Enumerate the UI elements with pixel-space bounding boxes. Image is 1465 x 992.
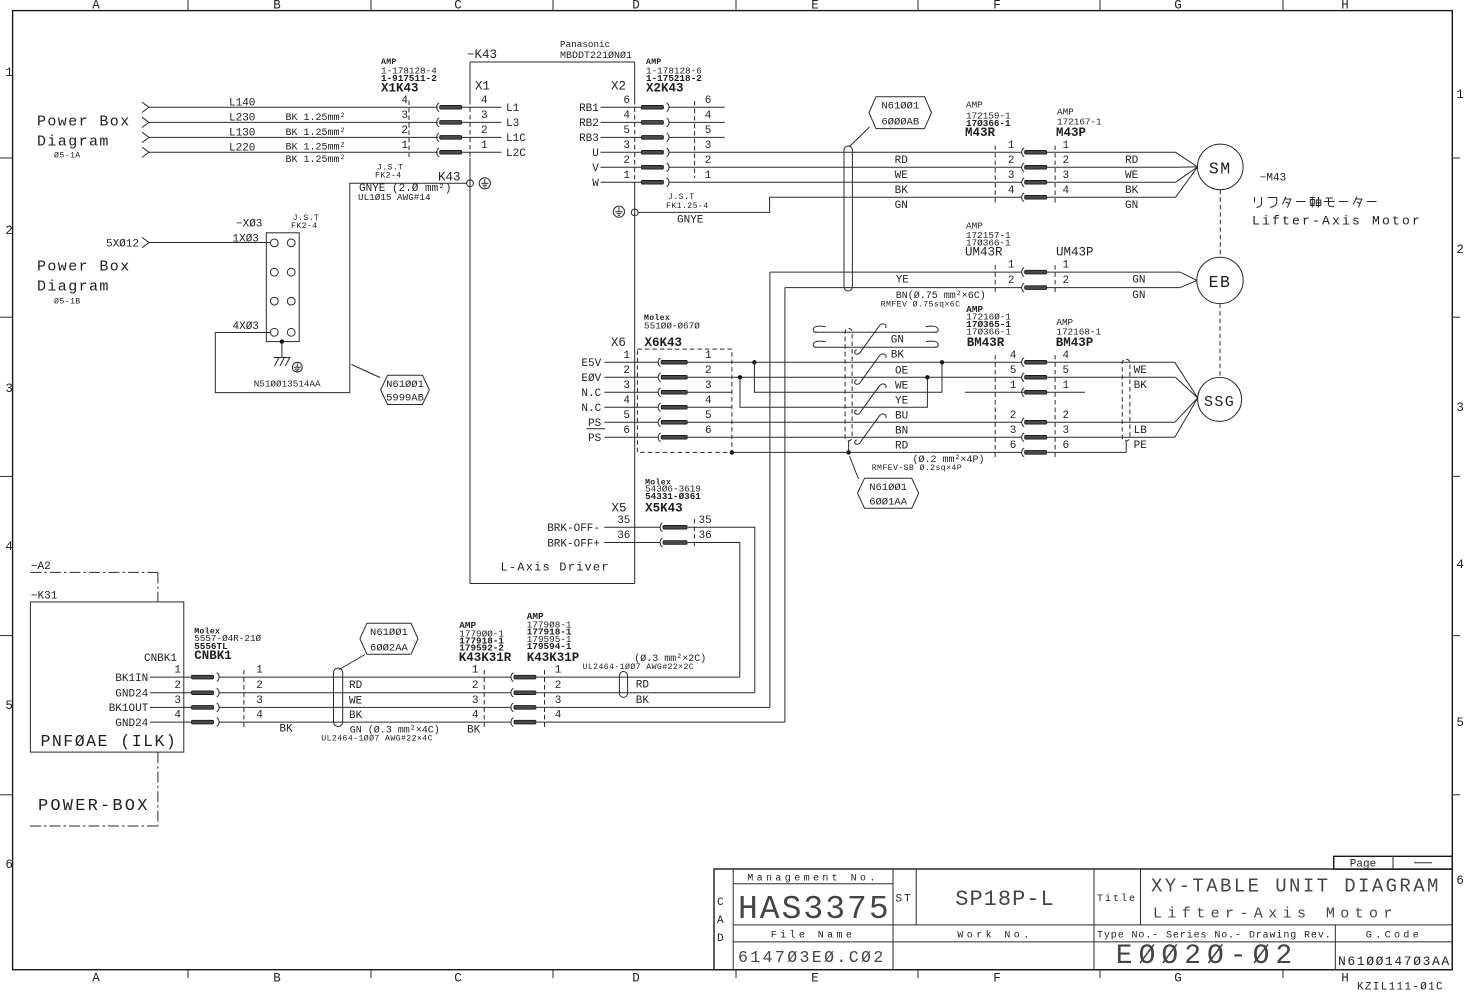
svg-text:A: A — [92, 0, 100, 13]
svg-text:5: 5 — [1063, 365, 1070, 377]
svg-text:2: 2 — [1063, 155, 1070, 167]
wire L140 — [142, 97, 438, 112]
svg-text:E5V: E5V — [581, 358, 601, 370]
svg-text:BK1OUT: BK1OUT — [109, 703, 149, 715]
twist symbol pair YE/BU — [855, 384, 886, 414]
node K43 with PE symbol — [375, 164, 490, 189]
svg-text:BK: BK — [467, 724, 481, 736]
svg-text:X6K43: X6K43 — [645, 336, 683, 350]
svg-text:3: 3 — [1008, 170, 1015, 182]
connector UM43R/UM43P — [965, 221, 1094, 293]
wire OE (X6 pin1 - BM43R pin4) — [687, 360, 1021, 392]
terminal block -X03 — [233, 214, 320, 341]
svg-text:6147Ø3EØ.CØ2: 6147Ø3EØ.CØ2 — [738, 948, 886, 967]
svg-text:2: 2 — [1063, 410, 1070, 422]
svg-text:1: 1 — [1008, 260, 1015, 272]
connector X6K43 — [611, 313, 732, 452]
svg-text:2: 2 — [555, 680, 562, 692]
svg-text:2: 2 — [705, 365, 712, 377]
svg-text:2: 2 — [481, 125, 488, 137]
balloon N61001 5999AB — [352, 365, 430, 405]
svg-text:Power Box: Power Box — [37, 114, 131, 131]
svg-text:Diagram: Diagram — [37, 134, 110, 151]
svg-text:A: A — [92, 972, 100, 986]
twist symbol pair GN/BK — [855, 324, 886, 354]
wire YE stub (X6 pin3) — [687, 392, 1085, 407]
svg-text:5: 5 — [5, 699, 13, 713]
svg-text:N.C: N.C — [581, 403, 601, 415]
wire BK1OUT (CNBK1 pin 3) — [109, 703, 511, 715]
svg-text:3: 3 — [481, 110, 488, 122]
svg-text:BK: BK — [895, 185, 909, 197]
svg-text:1: 1 — [472, 665, 479, 677]
svg-text:WE: WE — [1134, 365, 1148, 377]
svg-text:BU: BU — [895, 410, 908, 422]
svg-text:D: D — [717, 933, 724, 945]
svg-text:BK 1.25mm²: BK 1.25mm² — [286, 143, 346, 154]
svg-text:4: 4 — [401, 95, 408, 107]
svg-text:4: 4 — [1010, 350, 1017, 362]
wire GND24 (CNBK1 pin 2) — [115, 689, 511, 701]
svg-text:BK: BK — [349, 710, 363, 722]
svg-text:WE: WE — [1125, 170, 1139, 182]
svg-text:N61ØØ147Ø3AA: N61ØØ147Ø3AA — [1338, 954, 1451, 969]
wire WE (X6 pin2 - BM43R pin5) — [687, 375, 1021, 407]
svg-text:551ØØ-Ø67Ø: 551ØØ-Ø67Ø — [644, 321, 700, 332]
cable 0.2mm2x4P shield — [845, 329, 984, 473]
connector CNBK1 — [144, 627, 263, 727]
svg-text:G: G — [1174, 0, 1182, 13]
svg-text:6: 6 — [705, 425, 712, 437]
svg-text:J.S.T: J.S.T — [668, 193, 695, 202]
svg-text:3: 3 — [623, 380, 630, 392]
spare pair GN/BK — [813, 326, 938, 362]
svg-text:GN: GN — [891, 335, 904, 347]
svg-text:4: 4 — [1456, 558, 1464, 572]
svg-text:4XØ3: 4XØ3 — [233, 321, 259, 333]
svg-text:X5: X5 — [612, 502, 627, 516]
svg-text:FK2-4: FK2-4 — [291, 222, 318, 231]
svg-text:BK 1.25mm²: BK 1.25mm² — [286, 155, 346, 166]
twist symbol pair OE/WE — [855, 354, 886, 384]
svg-text:4: 4 — [705, 110, 712, 122]
wire label RD — [349, 680, 363, 692]
wire PE to SSG — [1047, 398, 1198, 452]
svg-text:G.Code: G.Code — [1366, 930, 1422, 942]
wire LB to SSG — [1047, 398, 1198, 437]
svg-text:SP18P-L: SP18P-L — [955, 887, 1054, 912]
wire GNYE 2.0mm2 — [215, 183, 466, 392]
svg-text:LB: LB — [1134, 425, 1148, 437]
svg-text:1: 1 — [705, 350, 712, 362]
svg-text:36: 36 — [617, 530, 630, 542]
svg-text:3: 3 — [256, 695, 263, 707]
svg-text:2: 2 — [1008, 275, 1015, 287]
svg-text:GN: GN — [895, 200, 908, 212]
svg-text:6ØØ1AA: 6ØØ1AA — [869, 496, 908, 508]
svg-text:2: 2 — [1008, 155, 1015, 167]
svg-text:3: 3 — [1063, 425, 1070, 437]
svg-text:5999AB: 5999AB — [386, 393, 424, 405]
svg-text:PS: PS — [588, 433, 602, 445]
svg-text:2: 2 — [401, 125, 408, 137]
svg-text:2: 2 — [623, 365, 630, 377]
svg-text:BM43R: BM43R — [967, 336, 1005, 350]
svg-text:C: C — [717, 897, 724, 909]
svg-text:−M43: −M43 — [1260, 172, 1286, 184]
svg-text:D: D — [632, 0, 640, 13]
svg-text:BK: BK — [891, 350, 905, 362]
wire GND24 (CNBK1 pin 4) — [115, 718, 511, 730]
svg-text:1: 1 — [705, 170, 712, 182]
svg-text:RD: RD — [1125, 155, 1139, 167]
svg-text:6: 6 — [705, 95, 712, 107]
node PE X2 / wire GNYE-GN — [613, 193, 1021, 226]
wire L130 — [142, 127, 438, 142]
title block CAD — [717, 897, 724, 945]
X6 signal E5V pin 1 — [581, 358, 658, 370]
svg-text:OE: OE — [895, 365, 909, 377]
wire label BK 1.25mm2 (4th) — [286, 155, 346, 166]
wire V (X2 pin 2) — [592, 163, 1021, 175]
svg-text:SM: SM — [1209, 159, 1232, 178]
svg-text:Type No.- Series No.- Drawing: Type No.- Series No.- Drawing Rev. — [1097, 930, 1332, 942]
svg-text:GND24: GND24 — [115, 718, 148, 730]
svg-text:WE: WE — [895, 380, 909, 392]
svg-text:4: 4 — [481, 95, 488, 107]
svg-text:BM43P: BM43P — [1056, 336, 1094, 350]
svg-text:L230: L230 — [229, 112, 255, 124]
svg-text:6: 6 — [623, 425, 630, 437]
svg-text:UM43P: UM43P — [1056, 246, 1094, 260]
svg-text:ST: ST — [896, 894, 913, 906]
svg-text:5: 5 — [705, 125, 712, 137]
svg-text:1: 1 — [623, 350, 630, 362]
svg-text:6: 6 — [623, 95, 630, 107]
wire RD (X6 pin6 - BM43R pin3) — [687, 437, 1021, 452]
svg-text:2: 2 — [705, 155, 712, 167]
wire BN (EB pin2, riser to K43K31 pin4) — [785, 280, 1197, 722]
svg-text:4: 4 — [555, 710, 562, 722]
svg-text:Page: Page — [1350, 858, 1376, 870]
svg-text:H: H — [1341, 972, 1349, 986]
brake EB — [1197, 257, 1243, 377]
svg-text:UL2464-1ØØ7 AWG#22×4C: UL2464-1ØØ7 AWG#22×4C — [321, 734, 433, 744]
svg-text:Power Box: Power Box — [37, 259, 131, 276]
svg-text:M43P: M43P — [1056, 126, 1086, 140]
wire BN (X6 pin5 - BM43R pin2) — [687, 422, 1021, 437]
svg-text:D: D — [632, 972, 640, 986]
svg-text:Diagram: Diagram — [37, 279, 110, 296]
svg-text:L1: L1 — [506, 103, 520, 115]
svg-text:BK: BK — [1134, 380, 1148, 392]
svg-text:1: 1 — [1063, 380, 1070, 392]
svg-text:2: 2 — [1063, 275, 1070, 287]
svg-text:4: 4 — [1063, 185, 1070, 197]
svg-text:RD: RD — [895, 440, 909, 452]
svg-text:4: 4 — [256, 710, 263, 722]
wire WE (M43 pin 2) — [895, 167, 1198, 182]
svg-text:−K43: −K43 — [467, 48, 497, 62]
svg-text:35: 35 — [617, 515, 630, 527]
svg-text:C: C — [454, 0, 462, 13]
cable 0.3mm2x2C note — [583, 653, 707, 707]
wire BRK-OFF+ (X5 pin36) — [547, 538, 740, 677]
svg-text:BK: BK — [636, 695, 650, 707]
svg-text:V: V — [592, 163, 599, 175]
wire BK (K43K31 pin2) — [537, 692, 755, 694]
svg-text:1: 1 — [1010, 380, 1017, 392]
svg-text:6: 6 — [1456, 874, 1464, 888]
svg-text:4: 4 — [5, 540, 13, 554]
svg-text:2: 2 — [1456, 243, 1464, 257]
wire 4 (K43K31 pin4) — [537, 721, 785, 723]
svg-text:6ØØ2AA: 6ØØ2AA — [370, 642, 409, 654]
wire 5X012 — [106, 237, 270, 250]
wire WE to SSG — [1047, 362, 1198, 398]
wire RB3 (X2 pin 5) — [579, 133, 725, 145]
svg-text:1XØ3: 1XØ3 — [233, 234, 259, 246]
wire shield RD (housing - BM43R pin6) — [730, 450, 1022, 454]
svg-text:RB1: RB1 — [579, 103, 599, 115]
connector X2K43 — [623, 58, 711, 187]
POWER-BOX boundary — [30, 752, 158, 826]
document code KZIL111-01C — [1357, 982, 1444, 992]
svg-text:RMFEV Ø.75sq×6C: RMFEV Ø.75sq×6C — [881, 299, 961, 309]
svg-text:CNBK1: CNBK1 — [194, 649, 232, 663]
X6 signal N.C pin 3 — [581, 388, 658, 400]
svg-text:N.C: N.C — [581, 388, 601, 400]
svg-text:1: 1 — [481, 140, 488, 152]
svg-text:EB: EB — [1209, 273, 1232, 292]
wire BRK-OFF- (X5 pin35) — [547, 523, 755, 693]
wire RB2 (X2 pin 4) — [579, 118, 725, 130]
svg-text:G: G — [1174, 972, 1182, 986]
svg-text:4: 4 — [623, 395, 630, 407]
svg-text:1: 1 — [1008, 140, 1015, 152]
svg-text:1: 1 — [401, 140, 408, 152]
svg-text:F: F — [993, 972, 1001, 986]
svg-text:1: 1 — [1456, 88, 1464, 102]
wire L220 — [142, 142, 438, 157]
svg-text:6: 6 — [1063, 440, 1070, 452]
svg-text:Lifter-Axis Motor: Lifter-Axis Motor — [1153, 906, 1398, 923]
svg-text:1: 1 — [1063, 140, 1070, 152]
svg-text:RB2: RB2 — [579, 118, 599, 130]
svg-text:YE: YE — [895, 395, 909, 407]
wire label BK — [349, 710, 363, 722]
svg-text:L3: L3 — [506, 118, 519, 130]
wire BK to SSG — [1047, 377, 1198, 398]
svg-text:H: H — [1341, 0, 1349, 13]
cable note GN 0.3mm2x4C — [321, 724, 480, 743]
wire GN (M43 pin 4) — [895, 167, 1198, 212]
X6 signal PS pin 6 — [587, 429, 659, 445]
ground N510013514AA — [254, 339, 321, 389]
svg-text:BRK-OFF+: BRK-OFF+ — [547, 538, 600, 550]
svg-text:GN: GN — [1132, 290, 1145, 302]
wire RD (K43K31 pin1) — [537, 676, 740, 678]
svg-text:KZIL111-Ø1C: KZIL111-Ø1C — [1357, 982, 1444, 992]
svg-text:RD: RD — [349, 680, 363, 692]
svg-text:HAS3375: HAS3375 — [738, 891, 891, 928]
svg-text:Management No.: Management No. — [747, 874, 879, 885]
svg-text:RD: RD — [636, 680, 650, 692]
svg-text:BK 1.25mm²: BK 1.25mm² — [286, 113, 346, 124]
connector X1K43 — [381, 58, 462, 157]
svg-text:Ø5-1A: Ø5-1A — [54, 151, 81, 161]
svg-text:UL2464-1ØØ7 AWG#22×2C: UL2464-1ØØ7 AWG#22×2C — [583, 662, 695, 672]
svg-text:BK: BK — [1125, 185, 1139, 197]
svg-text:M43R: M43R — [965, 126, 996, 140]
svg-text:RB3: RB3 — [579, 133, 599, 145]
svg-text:X5K43: X5K43 — [645, 502, 683, 516]
svg-text:E: E — [811, 972, 819, 986]
svg-text:1: 1 — [1063, 260, 1070, 272]
svg-text:L-Axis Driver: L-Axis Driver — [501, 561, 610, 575]
svg-text:5: 5 — [623, 125, 630, 137]
svg-text:5: 5 — [705, 410, 712, 422]
X6 signal PS pin 5 — [588, 418, 658, 430]
svg-text:N61ØØ1: N61ØØ1 — [386, 379, 424, 391]
svg-text:K43K31R: K43K31R — [459, 651, 512, 665]
svg-text:L1C: L1C — [506, 133, 526, 145]
balloon N61001 6000AB — [869, 97, 932, 129]
svg-text:35: 35 — [699, 515, 712, 527]
svg-text:EØØ2Ø-Ø2: EØØ2Ø-Ø2 — [1116, 941, 1298, 972]
motor SM -M43 — [1198, 144, 1287, 257]
svg-text:5: 5 — [1010, 365, 1017, 377]
svg-text:Panasonic: Panasonic — [560, 39, 610, 50]
title block frame — [714, 869, 1452, 970]
svg-text:3: 3 — [555, 695, 562, 707]
connector M43R/M43P — [965, 99, 1102, 203]
svg-text:4: 4 — [623, 110, 630, 122]
wire BK1IN (CNBK1 pin 1) — [115, 673, 511, 685]
svg-text:X1: X1 — [475, 80, 490, 94]
svg-text:Work No.: Work No. — [957, 930, 1032, 942]
field G.Code — [1338, 930, 1451, 970]
power box diagram 05-1A reference — [37, 114, 131, 161]
svg-text:Lifter-Axis Motor: Lifter-Axis Motor — [1252, 214, 1422, 229]
wire W (X2 pin 1) — [592, 178, 1021, 190]
svg-text:BK1IN: BK1IN — [115, 673, 148, 685]
X1 pin wires L1/L3/L1C/L2C — [462, 95, 526, 160]
connector BM43R/BM43P — [966, 304, 1101, 458]
svg-text:2: 2 — [5, 224, 13, 238]
svg-text:N61ØØ1: N61ØØ1 — [370, 627, 408, 639]
svg-text:1: 1 — [256, 665, 263, 677]
svg-text:3: 3 — [623, 140, 630, 152]
balloon N61001 6002AA — [360, 623, 418, 654]
svg-text:B: B — [273, 0, 281, 13]
svg-text:FK1.25-4: FK1.25-4 — [666, 202, 709, 211]
svg-text:4: 4 — [472, 710, 479, 722]
svg-text:−A2: −A2 — [31, 561, 51, 573]
field Work No. — [957, 930, 1032, 942]
svg-text:4: 4 — [174, 710, 181, 722]
svg-text:RMFEV-SB Ø.2sq×4P: RMFEV-SB Ø.2sq×4P — [872, 463, 962, 473]
wire BU stub (X6 pin4) — [687, 407, 908, 422]
svg-text:PE: PE — [1134, 440, 1148, 452]
unit boundary -A2 — [30, 561, 157, 602]
wire RB1 (X2 pin 6) — [579, 103, 725, 115]
shield capsule at SSG — [1047, 359, 1130, 452]
svg-text:X2: X2 — [611, 80, 626, 94]
wire label BK (CNBK1 side) — [279, 724, 293, 736]
svg-text:L220: L220 — [229, 142, 255, 154]
svg-text:RD: RD — [895, 155, 909, 167]
svg-text:4: 4 — [705, 395, 712, 407]
svg-text:N51ØØ13514AA: N51ØØ13514AA — [254, 378, 321, 389]
svg-text:L130: L130 — [229, 127, 255, 139]
svg-text:1: 1 — [174, 665, 181, 677]
balloon N61001 6001AA — [850, 456, 919, 508]
svg-text:3: 3 — [5, 382, 13, 396]
twist symbol pair BN/RD — [855, 414, 886, 444]
cable sheath (motor cable) — [844, 127, 870, 291]
svg-text:UM43R: UM43R — [965, 246, 1003, 260]
svg-text:X1K43: X1K43 — [381, 82, 419, 96]
svg-text:U: U — [592, 148, 599, 160]
svg-text:3: 3 — [472, 695, 479, 707]
svg-text:1: 1 — [623, 170, 630, 182]
svg-text:6ØØØAB: 6ØØØAB — [881, 117, 919, 129]
svg-text:−XØ3: −XØ3 — [236, 219, 262, 231]
svg-text:3: 3 — [1063, 170, 1070, 182]
svg-text:UL1Ø15 AWG#14: UL1Ø15 AWG#14 — [358, 192, 431, 203]
svg-text:B: B — [273, 972, 281, 986]
wire 3 (K43K31 pin3) — [537, 706, 770, 708]
wire U (X2 pin 3) — [592, 148, 1021, 160]
page box — [1334, 856, 1453, 870]
svg-text:2: 2 — [256, 680, 263, 692]
X6 signal N.C pin 4 — [581, 403, 658, 415]
svg-text:54331-Ø361: 54331-Ø361 — [645, 491, 701, 502]
svg-text:5: 5 — [1456, 716, 1464, 730]
svg-text:5XØ12: 5XØ12 — [106, 238, 139, 250]
wire L230 — [142, 112, 438, 127]
svg-text:EØV: EØV — [581, 373, 601, 385]
svg-text:File Name: File Name — [771, 930, 856, 942]
svg-text:3: 3 — [401, 110, 408, 122]
svg-text:3: 3 — [1010, 425, 1017, 437]
svg-text:AMP: AMP — [966, 99, 983, 110]
svg-text:GNYE: GNYE — [677, 215, 704, 227]
svg-text:Title: Title — [1097, 893, 1137, 905]
svg-text:N61ØØ1: N61ØØ1 — [869, 482, 907, 494]
label Lifter-Axis Motor — [1252, 214, 1422, 229]
svg-text:GND24: GND24 — [115, 689, 148, 701]
svg-text:X2K43: X2K43 — [646, 82, 684, 96]
svg-text:1: 1 — [555, 665, 562, 677]
svg-text:YE: YE — [896, 275, 910, 287]
svg-text:C: C — [454, 972, 462, 986]
svg-text:3: 3 — [705, 380, 712, 392]
svg-text:6: 6 — [5, 858, 13, 872]
svg-text:4: 4 — [1008, 185, 1015, 197]
svg-text:6: 6 — [1010, 440, 1017, 452]
svg-text:POWER-BOX: POWER-BOX — [38, 797, 150, 816]
svg-text:GN: GN — [1132, 275, 1145, 287]
svg-text:2: 2 — [623, 155, 630, 167]
svg-text:−K31: −K31 — [31, 591, 58, 603]
svg-text:36: 36 — [699, 530, 712, 542]
svg-text:K43K31P: K43K31P — [527, 651, 580, 665]
field Management No. — [738, 874, 891, 929]
wire BK (M43 pin 3) — [895, 167, 1198, 197]
field Title — [1097, 876, 1441, 923]
